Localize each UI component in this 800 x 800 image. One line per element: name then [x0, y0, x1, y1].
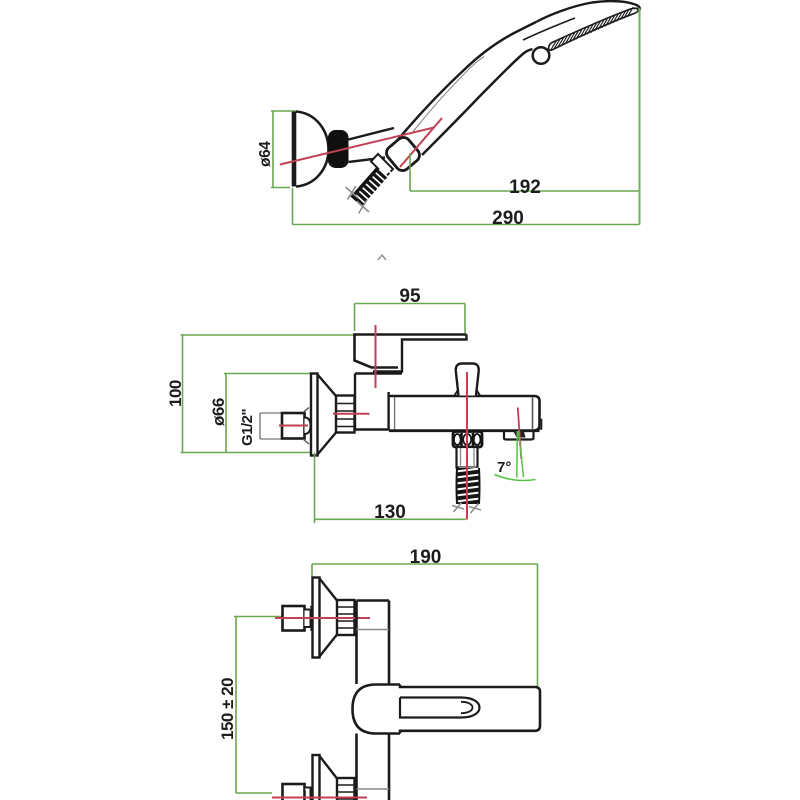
- G1/2 eccentric nipple (side view): [282, 408, 311, 445]
- bottom G1/2 nipple (plan, cut off): [283, 784, 311, 800]
- dimension ø64 extension bottom: [271, 187, 290, 189]
- dimension 192 line: [410, 190, 640, 192]
- spiral hose (side view): [456, 468, 480, 504]
- dimension ø64 extension top: [271, 110, 296, 112]
- hose hex nut under body: [453, 432, 482, 448]
- shower handle upper outline: [401, 22, 536, 136]
- label 290: [492, 208, 524, 229]
- spout (plan view): [353, 685, 541, 734]
- hose break X marks: [346, 186, 370, 214]
- label 150 +/- 20: [218, 678, 237, 740]
- label 192: [509, 177, 541, 198]
- ribbed hose (top view): [356, 166, 393, 205]
- holder bracket: [384, 133, 423, 173]
- body bar (plan): [357, 601, 390, 800]
- dimension 190: [312, 564, 538, 686]
- spout inner slot: [400, 698, 480, 718]
- label 130: [374, 502, 406, 523]
- red centerline A (holder axis): [280, 128, 434, 165]
- label G1/2": [239, 408, 256, 446]
- label 190: [410, 547, 442, 568]
- dimension ø66: [224, 374, 311, 453]
- hanging ring: [533, 47, 550, 64]
- label ø64: [257, 141, 274, 167]
- svg-text:95: 95: [399, 286, 421, 307]
- extension from dome to 290 line: [292, 188, 294, 225]
- dimension 95 line: [355, 304, 466, 334]
- svg-text:130: 130: [374, 502, 406, 523]
- svg-text:290: 290: [492, 208, 524, 229]
- top G1/2 nipple (plan): [283, 606, 313, 631]
- red centerline bottom connection: [272, 797, 367, 799]
- hose nut at bracket: [371, 154, 393, 177]
- red centerline top connection: [275, 617, 370, 619]
- red centerline B (handle axis): [400, 118, 442, 167]
- spout tip hook: [504, 431, 534, 440]
- red centerline of nipple: [279, 425, 308, 427]
- wall escutcheon (side view): [311, 374, 355, 456]
- label 95: [399, 286, 421, 307]
- mixer handle (side): [355, 335, 467, 372]
- wall cone escutcheon of shower holder: [294, 112, 329, 187]
- svg-text:192: 192: [509, 177, 541, 198]
- label 100: [166, 380, 185, 407]
- dimension 100: [181, 335, 355, 453]
- hose connector cylinder: [457, 447, 478, 471]
- bottom wall escutcheon (plan, cut off): [313, 755, 355, 800]
- red centerline of diverter/hose: [466, 372, 468, 520]
- shower head spray face: [549, 8, 639, 50]
- dimension 150 +/- 20: [234, 617, 300, 794]
- dimension 130: [315, 453, 467, 524]
- shower head top outline: [536, 1, 640, 22]
- svg-text:ø64: ø64: [257, 141, 274, 167]
- svg-text:190: 190: [410, 547, 442, 568]
- red centerline of handle: [375, 325, 377, 388]
- dimension 192 extension at hose center: [409, 153, 411, 191]
- shower handle inner line: [412, 57, 484, 134]
- svg-text:G1/2": G1/2": [239, 408, 256, 446]
- dimension ø64 line: [272, 111, 274, 188]
- holder black ring: [329, 131, 349, 168]
- dimension 290 line: [293, 224, 640, 226]
- spray face hatching: [551, 7, 634, 50]
- head back inner line: [523, 18, 575, 40]
- stray mark: [378, 255, 386, 260]
- red centerline of escutcheon axis: [333, 413, 370, 415]
- top wall escutcheon (plan): [313, 578, 355, 658]
- svg-text:7°: 7°: [497, 459, 511, 476]
- label 7deg: [497, 459, 511, 476]
- dimension right extension vertical: [639, 8, 641, 225]
- G1/2 extension bracket: [260, 413, 282, 439]
- valve body under handle: [355, 374, 402, 431]
- shower handle lower outline: [422, 49, 533, 155]
- hose break X marks (side): [452, 503, 481, 514]
- main body bar (side): [389, 396, 542, 431]
- label ø66: [209, 398, 228, 426]
- holder arm: [349, 128, 395, 162]
- svg-text:150 ± 20: 150 ± 20: [218, 678, 237, 740]
- svg-text:100: 100: [166, 380, 185, 407]
- shower handle white fill: [401, 1, 640, 155]
- 7 degree wedge: [495, 408, 536, 481]
- svg-text:ø66: ø66: [209, 398, 228, 426]
- diverter knob: [455, 364, 481, 396]
